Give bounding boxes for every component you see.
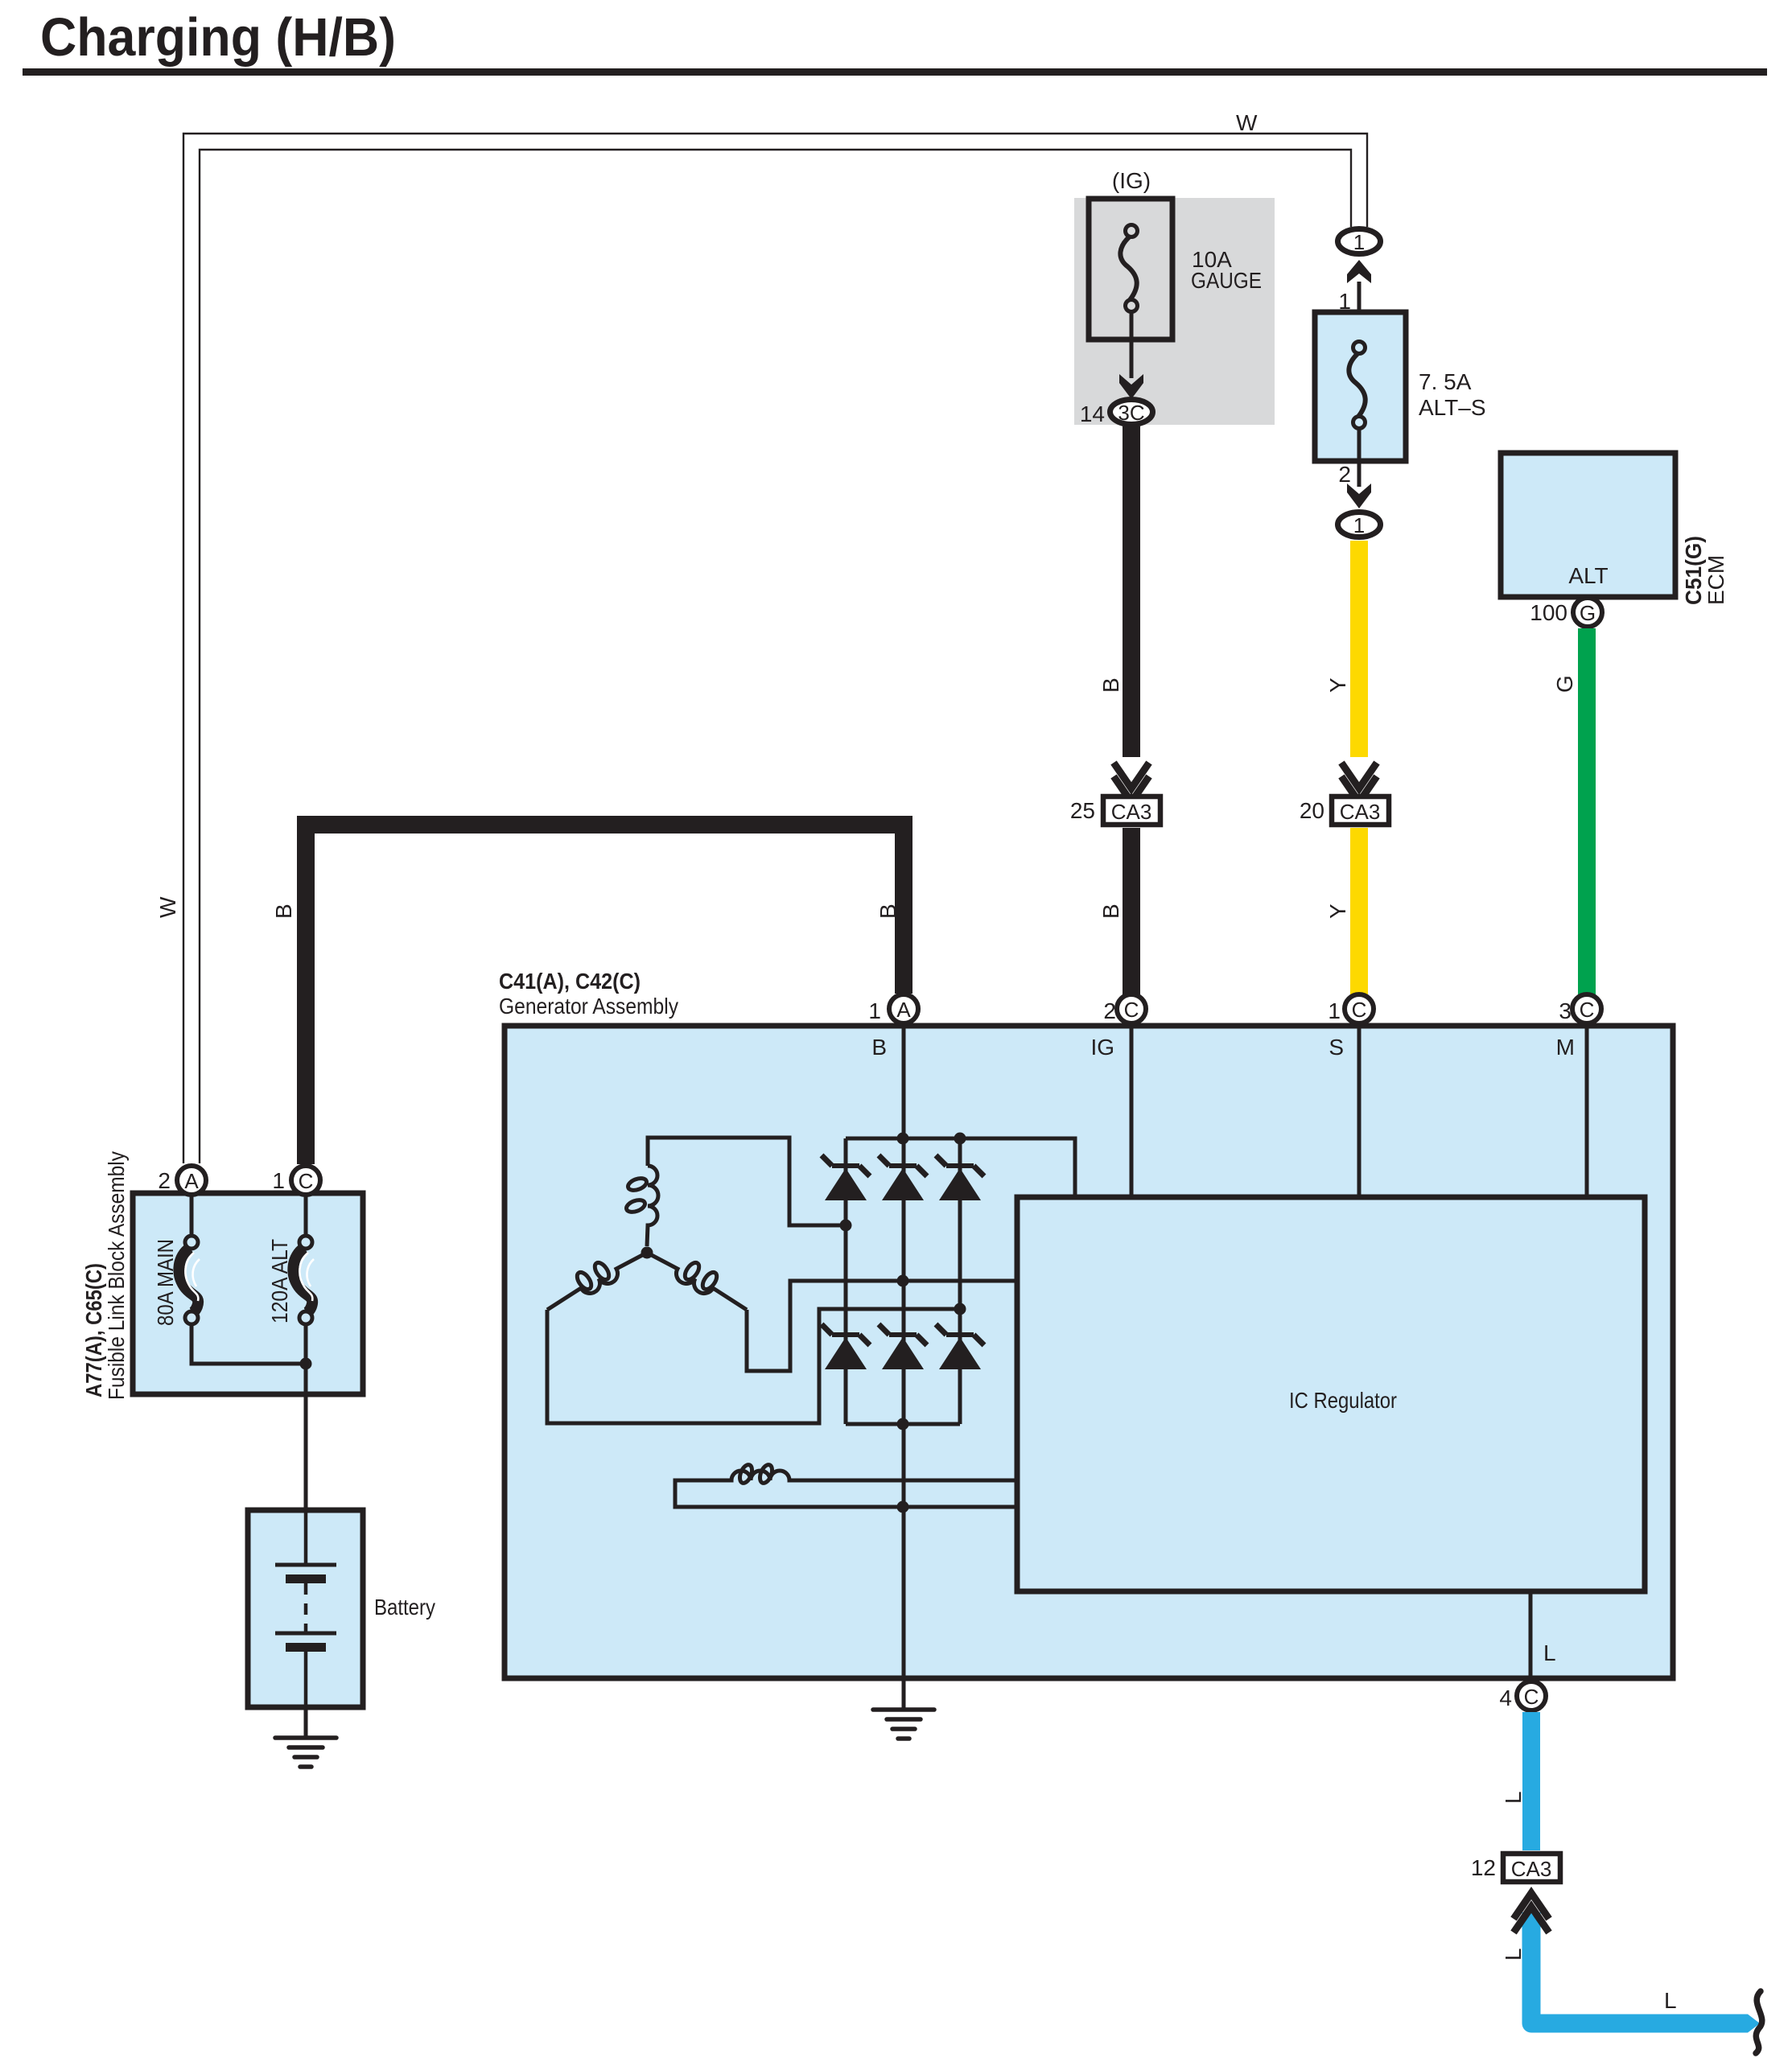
fuse 7.5A ALT-S box (1315, 312, 1406, 461)
junction block (gray) (1074, 198, 1275, 425)
generator assembly box C41(A) C42(C) (505, 1026, 1673, 1678)
node top bus / col3 (954, 1133, 966, 1145)
svg-text:ALT–S: ALT–S (1419, 395, 1486, 420)
svg-text:GAUGE: GAUGE (1191, 268, 1262, 293)
svg-text:Generator Assembly: Generator Assembly (499, 994, 678, 1019)
svg-text:W: W (1236, 110, 1258, 135)
wire Y (yellow) CA3 to generator pin 1C (1350, 828, 1368, 994)
pin 3 C (M) (1572, 994, 1601, 1023)
svg-text:C: C (1124, 998, 1139, 1022)
pin 2 A (177, 1166, 206, 1195)
svg-text:B: B (875, 903, 900, 919)
wire joining fuses (192, 1324, 306, 1364)
internal wire from pin M (1585, 1026, 1589, 1197)
svg-text:1: 1 (272, 1168, 285, 1193)
wire fuse pin 2 down (1357, 426, 1362, 487)
wire L (light blue) pin 4 to CA3 12 (1522, 1712, 1540, 1850)
ground (generator) (902, 1678, 906, 1710)
svg-text:ECM: ECM (1703, 555, 1728, 605)
svg-text:14: 14 (1080, 401, 1105, 426)
diode column 3 wire (958, 1138, 962, 1424)
pin 4 C (1517, 1681, 1546, 1710)
wire 120A ALT to battery (304, 1324, 308, 1510)
svg-text:L: L (1501, 1948, 1526, 1961)
svg-text:(IG): (IG) (1112, 168, 1151, 193)
diode D1L (lower) (832, 1332, 859, 1337)
svg-text:B: B (271, 903, 296, 919)
diode D2L (lower) (889, 1332, 917, 1337)
svg-text:S: S (1329, 1035, 1344, 1060)
wire Y (yellow) connector to CA3 20 (1350, 541, 1368, 757)
ground (battery) (304, 1707, 308, 1738)
stator coil C (right) (647, 1253, 747, 1310)
svg-text:1: 1 (1353, 230, 1365, 254)
stator coil A (top) (647, 1166, 658, 1246)
wire L (light blue) below CA3 (1531, 1912, 1748, 2023)
arrow chevrons into CA3 20 (1341, 763, 1377, 788)
svg-text:L: L (1543, 1640, 1556, 1665)
node phase C / B line (897, 1275, 909, 1287)
stator phase B wire (547, 1309, 960, 1423)
connector 1 (lower) (1338, 512, 1381, 537)
wire B (black) CA3 to generator pin 2C (1123, 828, 1140, 994)
svg-text:C: C (299, 1169, 314, 1193)
fusible link block assembly A77(A) C65(C) (133, 1193, 363, 1394)
svg-text:80A MAIN: 80A MAIN (153, 1239, 178, 1326)
pin 1 A (889, 994, 918, 1023)
svg-text:B: B (871, 1035, 887, 1060)
svg-text:CA3: CA3 (1111, 800, 1152, 824)
svg-text:Y: Y (1325, 903, 1350, 919)
fusible link 120A ALT (304, 1196, 308, 1237)
internal wire from pin IG (1130, 1026, 1134, 1197)
arrow into 3C (1119, 374, 1143, 399)
diode D2 (upper) (889, 1163, 917, 1168)
stator phase A lead (648, 1138, 846, 1225)
svg-text:C41(A), C42(C): C41(A), C42(C) (499, 969, 641, 994)
arrow chevrons out of CA3 12 (1514, 1893, 1549, 1919)
connector CA3 pin 12 (1503, 1854, 1560, 1882)
svg-text:C: C (1580, 998, 1595, 1022)
rectifier top bus (846, 1138, 1075, 1197)
battery cells (304, 1510, 308, 1565)
svg-text:C: C (1524, 1685, 1539, 1709)
wire continuation squiggle (1756, 1991, 1762, 2053)
svg-text:C: C (1352, 998, 1367, 1022)
node stator neutral (641, 1247, 653, 1259)
stator phase C wire (747, 1281, 1017, 1371)
wire fuse to connector 3C (1130, 311, 1134, 378)
svg-text:CA3: CA3 (1340, 800, 1381, 824)
internal wire L from IC regulator (1529, 1591, 1533, 1678)
svg-text:3C: 3C (1118, 401, 1144, 425)
stator coil B (left) (547, 1253, 647, 1310)
svg-text:1: 1 (1353, 513, 1365, 537)
svg-text:Y: Y (1325, 677, 1350, 693)
svg-text:2: 2 (1103, 998, 1116, 1023)
fuse 7.5A element (1349, 352, 1365, 417)
svg-text:1: 1 (868, 998, 881, 1023)
wire to fuse pin 1 (1357, 282, 1362, 344)
arrow up into connector 1 (1347, 260, 1371, 283)
node fuse junction (300, 1358, 312, 1370)
IC Regulator box (1017, 1197, 1645, 1591)
svg-text:L: L (1501, 1791, 1526, 1804)
ECM box C51(G) (1501, 453, 1675, 597)
svg-text:L: L (1664, 1988, 1677, 2013)
pin 2 C (1117, 994, 1146, 1023)
node phase A / col1 (840, 1220, 852, 1232)
node field return / B line (897, 1501, 909, 1513)
wire W (white) from fusible link pin 2A up, across top, down to connector 1 (183, 134, 1367, 1163)
svg-text:Fusible Link Block Assembly: Fusible Link Block Assembly (104, 1151, 129, 1400)
diode column 1 wire (844, 1138, 848, 1424)
svg-text:A: A (184, 1169, 199, 1193)
pin 1 C (S) (1345, 994, 1374, 1023)
svg-text:2: 2 (1338, 462, 1351, 487)
wire B (black) 3C to CA3 25 (1123, 426, 1140, 757)
svg-text:2: 2 (158, 1168, 171, 1193)
fuse 10A GAUGE element (1120, 236, 1136, 300)
svg-text:4: 4 (1499, 1686, 1512, 1710)
svg-text:ALT: ALT (1568, 563, 1608, 588)
connector 1 (top, above fuse ALT-S) (1338, 229, 1381, 254)
svg-text:Charging (H/B): Charging (H/B) (40, 7, 396, 68)
fusible link 80A MAIN (190, 1196, 194, 1237)
svg-text:Battery: Battery (374, 1595, 435, 1620)
svg-text:CA3: CA3 (1511, 1857, 1552, 1881)
svg-text:M: M (1556, 1035, 1575, 1060)
svg-text:C51(G): C51(G) (1681, 536, 1706, 605)
svg-text:IC Regulator: IC Regulator (1289, 1388, 1397, 1413)
internal wire from pin B (902, 1026, 906, 1678)
node phase B / col3 (954, 1303, 966, 1315)
node bottom bus / B line (897, 1418, 909, 1430)
svg-text:B: B (1098, 677, 1123, 693)
svg-text:3: 3 (1559, 998, 1572, 1023)
svg-text:G: G (1552, 675, 1577, 693)
svg-text:100: 100 (1530, 600, 1567, 625)
svg-text:20: 20 (1300, 798, 1324, 823)
svg-text:1: 1 (1328, 998, 1341, 1023)
svg-text:A77(A), C65(C): A77(A), C65(C) (81, 1263, 106, 1397)
svg-text:A: A (896, 998, 911, 1022)
diode D3L (lower) (946, 1332, 974, 1337)
svg-text:B: B (1098, 903, 1123, 919)
rotor field coil (675, 1471, 1017, 1507)
internal wire from pin S (1357, 1026, 1362, 1197)
svg-text:G: G (1580, 601, 1596, 625)
connector CA3 pin 20 (1332, 796, 1389, 825)
fuse 10A GAUGE box (1089, 199, 1172, 340)
diode D3 (upper) (946, 1163, 974, 1168)
rectifier bottom bus (846, 1422, 960, 1426)
node top bus / B (897, 1133, 909, 1145)
svg-text:120A ALT: 120A ALT (267, 1239, 292, 1323)
arrow down into connector 1 (lower) (1347, 484, 1371, 508)
svg-text:25: 25 (1070, 798, 1095, 823)
svg-text:W: W (155, 896, 180, 918)
connector 3C (pin 14) (1110, 400, 1153, 425)
wire G (green) ECM to generator pin 3C (1578, 628, 1596, 994)
battery box (248, 1510, 363, 1707)
arrow chevrons into CA3 25 (1114, 763, 1149, 788)
pin 1 C (291, 1166, 320, 1195)
pin 100 G (1573, 598, 1602, 627)
svg-text:7. 5A: 7. 5A (1419, 369, 1472, 394)
wire B (black thick) fusible link 1C to generator 1A (306, 825, 904, 1164)
svg-text:IG: IG (1090, 1035, 1114, 1060)
connector CA3 pin 25 (1103, 796, 1160, 825)
svg-text:12: 12 (1471, 1855, 1496, 1880)
diode D1 (upper) (832, 1163, 859, 1168)
